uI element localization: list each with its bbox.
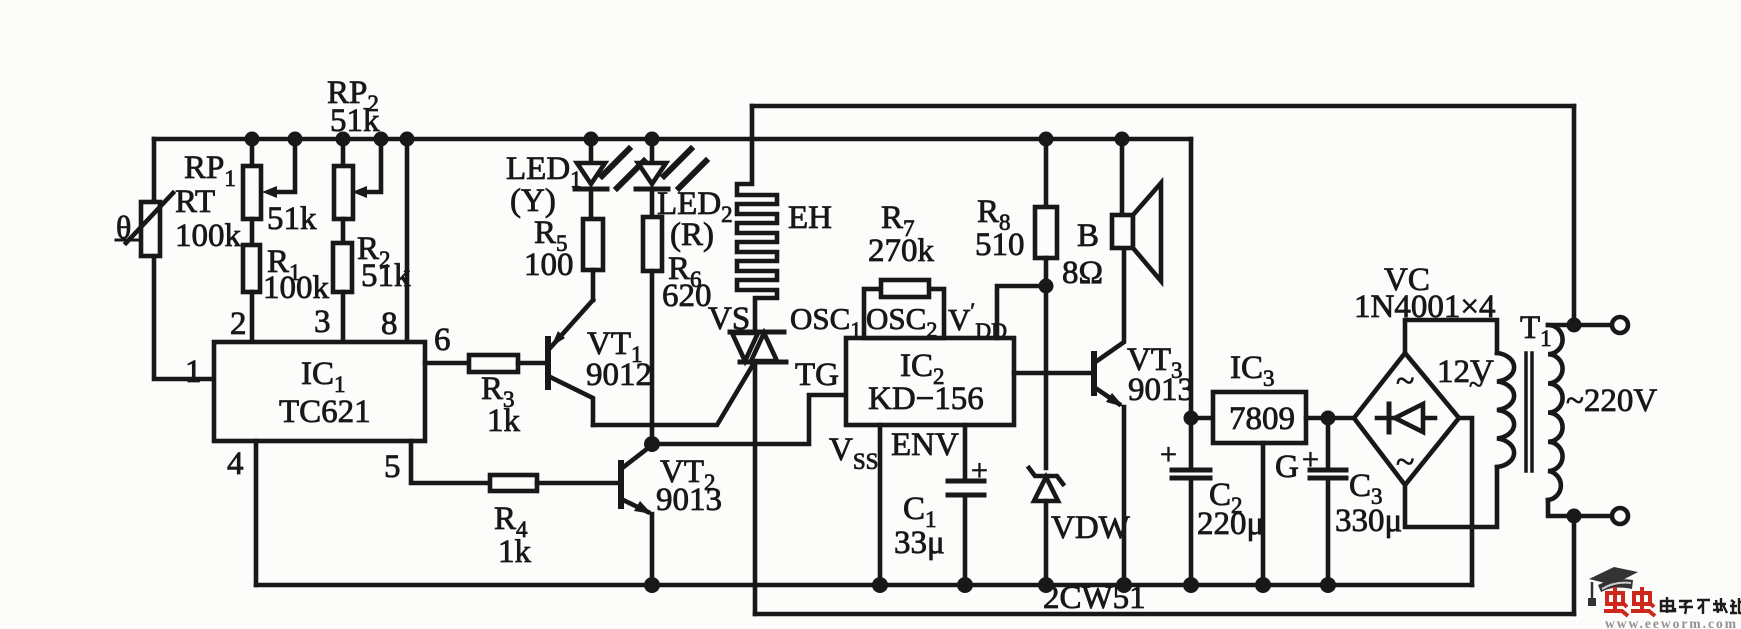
- svg-text:100: 100: [524, 247, 574, 283]
- wire upper mains line: [752, 104, 1574, 109]
- resistor R2: [333, 219, 352, 342]
- svg-text:51k: 51k: [361, 258, 411, 294]
- wire top supply rail: [154, 137, 1191, 142]
- wire primary top: [1548, 323, 1612, 328]
- svg-text:+: +: [1302, 443, 1319, 476]
- svg-text:RT: RT: [175, 184, 215, 220]
- svg-text:620: 620: [662, 278, 712, 314]
- svg-text:100k: 100k: [263, 270, 330, 306]
- watermark logo cap: [1588, 567, 1638, 606]
- svg-text:TC621: TC621: [279, 394, 371, 430]
- wire pin 6: [425, 361, 469, 366]
- label 12V: [1437, 354, 1494, 399]
- label RT 100k: [175, 184, 242, 254]
- svg-text:~: ~: [1396, 363, 1414, 400]
- svg-text:5: 5: [384, 449, 401, 485]
- resistor R8: [1035, 139, 1057, 286]
- label IC3 7809 G: [1229, 350, 1299, 485]
- label R1 100k: [263, 244, 330, 306]
- watermark chongchong red glyphs: [1604, 587, 1655, 616]
- wire bridge bottom to secondary: [1405, 467, 1497, 527]
- label R2 51k: [357, 231, 411, 294]
- svg-text:B: B: [1077, 218, 1099, 254]
- speaker B: [1112, 139, 1161, 281]
- transistor VT3 9013: [1094, 248, 1124, 585]
- label IC1 TC621: [279, 356, 371, 430]
- node 7809 input junction: [1184, 411, 1199, 426]
- svg-text:2: 2: [230, 306, 247, 342]
- transistor VT2 9013: [621, 445, 652, 585]
- svg-text:www.eeworm.com: www.eeworm.com: [1605, 616, 1738, 629]
- node VDD junction: [1039, 279, 1054, 294]
- svg-text:270k: 270k: [868, 233, 935, 269]
- transformer T1 primary winding: [1548, 325, 1563, 500]
- op-amp U1 IC1 TC621: [214, 342, 425, 441]
- label pin numbers 2 3 8: [230, 304, 398, 342]
- svg-text:9013: 9013: [1128, 372, 1194, 408]
- wire pin 4: [254, 441, 259, 585]
- LED2: [636, 139, 706, 217]
- wire ENV pin: [963, 425, 968, 585]
- wire node to TG: [652, 395, 846, 444]
- transformer T1 secondary winding: [1497, 353, 1514, 467]
- svg-text:12V: 12V: [1437, 354, 1494, 390]
- svg-text:TG: TG: [795, 357, 839, 393]
- wire pin 5: [411, 441, 490, 483]
- wire lower mains vertical: [1572, 516, 1577, 614]
- label VDW 2CW51: [1043, 510, 1146, 616]
- svg-text:+: +: [1160, 438, 1177, 471]
- svg-text:100k: 100k: [175, 218, 242, 254]
- wire left branch to pin 1: [154, 139, 214, 379]
- svg-text:+: +: [971, 454, 988, 487]
- wire R8 node down to zener: [1044, 286, 1049, 468]
- svg-text:(Y): (Y): [510, 183, 556, 219]
- resistor R6: [643, 217, 662, 444]
- terminal lower: [1612, 508, 1628, 524]
- bridge rectifier VC 1N4001x4: [1354, 353, 1459, 485]
- svg-text:4: 4: [227, 446, 244, 482]
- svg-text:1: 1: [185, 354, 202, 390]
- svg-text:EH: EH: [788, 200, 832, 236]
- label bridge tildes: [1396, 363, 1414, 481]
- wire Vss pin: [878, 425, 883, 585]
- node mains lower junction: [1567, 509, 1582, 524]
- svg-text:510: 510: [975, 227, 1025, 263]
- svg-text:(R): (R): [670, 217, 714, 253]
- label VT2 9013: [656, 454, 722, 518]
- wire right branch of top rail: [1189, 139, 1194, 585]
- wire bridge top to secondary: [1405, 320, 1497, 353]
- wire VT1 collector to triac gate: [593, 363, 754, 425]
- label R4 1k: [494, 501, 532, 570]
- resistor R1: [243, 219, 260, 342]
- svg-text:7809: 7809: [1229, 401, 1295, 437]
- svg-text:6: 6: [434, 322, 451, 358]
- transistor VT1 9012: [548, 300, 593, 425]
- svg-text:G: G: [1275, 449, 1299, 485]
- svg-text:~220V: ~220V: [1566, 383, 1657, 419]
- svg-text:8: 8: [381, 306, 398, 342]
- zener diode VDW: [1029, 468, 1063, 585]
- resistor R4: [490, 475, 617, 491]
- label VT1 9012: [586, 326, 652, 393]
- label RP1 51k: [184, 150, 317, 237]
- IC U2 KD-156: [846, 286, 1046, 425]
- resistor R5: [583, 219, 603, 300]
- label C1 33u plus: [894, 454, 988, 561]
- label VT3 9013: [1127, 342, 1194, 408]
- svg-text:33μ: 33μ: [894, 525, 945, 561]
- IC U3 7809: [1191, 392, 1354, 585]
- label LED2 (R): [657, 186, 733, 253]
- potentiometer RP1: [243, 139, 295, 219]
- svg-text:9012: 9012: [586, 357, 652, 393]
- label C2 220u plus: [1160, 438, 1264, 542]
- node mains upper junction: [1567, 318, 1582, 333]
- svg-text:1k: 1k: [487, 403, 521, 439]
- svg-text:9013: 9013: [656, 482, 722, 518]
- label RP2 51k: [327, 75, 380, 139]
- thermistor RT: [116, 193, 173, 256]
- svg-text:330μ: 330μ: [1335, 503, 1402, 539]
- svg-text:8Ω: 8Ω: [1062, 255, 1103, 291]
- node A VT2 collector junction: [644, 436, 660, 452]
- label R5 100: [524, 215, 574, 283]
- svg-text:VS: VS: [708, 301, 750, 337]
- label R3 1k: [481, 371, 521, 439]
- svg-text:ENV: ENV: [891, 427, 959, 463]
- label LED1 (Y): [506, 151, 582, 219]
- transformer T1 core: [1526, 353, 1532, 471]
- capacitor C2: [1172, 470, 1210, 478]
- label IC2 KD-156: [868, 348, 984, 417]
- svg-text:1k: 1k: [498, 534, 532, 570]
- label OSC1 OSC2 VDD pins: [790, 298, 1007, 343]
- wire ground rail: [256, 583, 1472, 588]
- junction dots on ground rail: [644, 577, 1336, 593]
- triac VS: [730, 332, 786, 614]
- label VC 1N4001x4: [1354, 262, 1495, 325]
- capacitor C1: [948, 481, 984, 495]
- wire right mains vertical: [1572, 106, 1577, 325]
- svg-text:51k: 51k: [330, 103, 380, 139]
- label B 8ohm: [1062, 218, 1103, 291]
- wire primary bottom: [1548, 500, 1612, 516]
- svg-text:VDW: VDW: [1051, 510, 1131, 546]
- svg-text:~: ~: [1469, 370, 1483, 399]
- wire mains lower line: [755, 612, 1574, 617]
- svg-text:51k: 51k: [267, 201, 317, 237]
- LED1: [575, 139, 644, 219]
- svg-text:3: 3: [314, 304, 331, 340]
- junction dots on top rail: [245, 132, 1130, 147]
- svg-text:220μ: 220μ: [1197, 506, 1264, 542]
- capacitor C3: [1310, 418, 1346, 585]
- label R8 510: [975, 194, 1025, 263]
- wire bridge right to ground rail: [1459, 418, 1472, 585]
- node 7809 output junction: [1321, 411, 1336, 426]
- label R7 270k: [868, 200, 935, 269]
- heater element EH: [737, 106, 777, 332]
- resistor R3: [469, 355, 545, 372]
- label R6 620: [662, 251, 712, 314]
- resistor R7: [881, 280, 929, 297]
- watermark site name glyphs: [1661, 597, 1741, 614]
- potentiometer RP2: [334, 139, 381, 219]
- svg-text:KD−156: KD−156: [868, 381, 984, 417]
- svg-text:θ: θ: [116, 209, 131, 245]
- terminal upper: [1612, 317, 1628, 333]
- label C3 330u plus: [1302, 443, 1402, 539]
- wire pin 8: [405, 139, 410, 342]
- svg-text:~: ~: [1396, 444, 1414, 481]
- wire IC2 output to VT3 base: [1014, 371, 1094, 376]
